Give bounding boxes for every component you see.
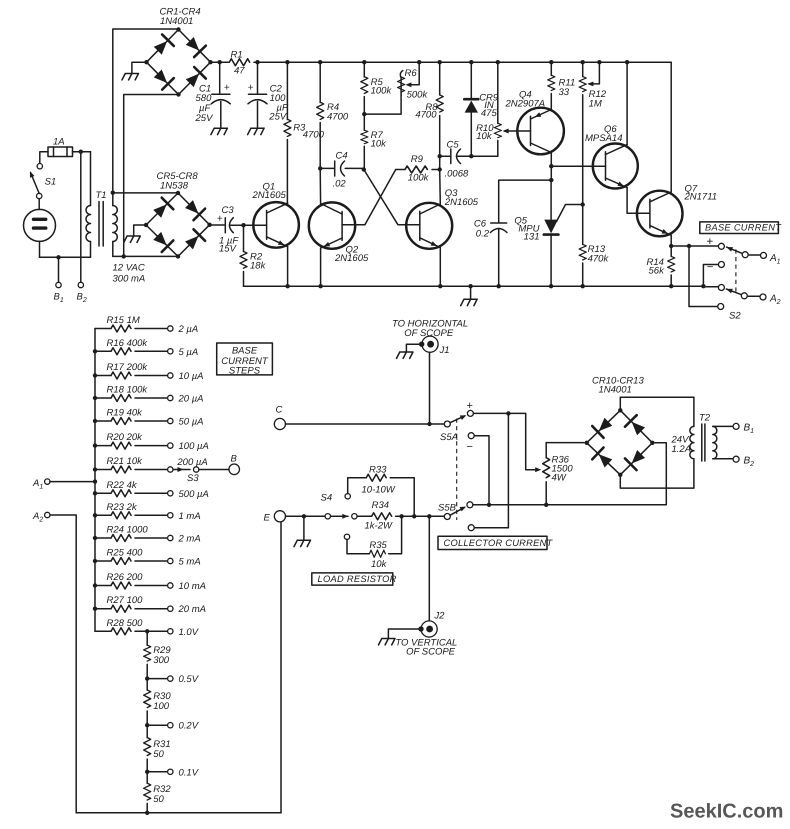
- svg-text:E: E: [264, 513, 271, 524]
- svg-text:R19 40k: R19 40k: [107, 408, 144, 419]
- node Q6 collector on rail: [625, 60, 629, 64]
- svg-text:R22 4k: R22 4k: [107, 480, 138, 491]
- resistor R22: [93, 480, 168, 497]
- wire arm to A1: [748, 254, 760, 256]
- svg-text:300: 300: [153, 655, 170, 666]
- node Q1 emitter rail: [285, 284, 289, 288]
- svg-text:S1: S1: [45, 177, 57, 188]
- wire branch down to lower throw: [689, 246, 718, 307]
- resistor R26: [93, 572, 168, 589]
- svg-text:1A: 1A: [53, 137, 65, 148]
- svg-text:R9: R9: [411, 154, 424, 165]
- ground (J2): [379, 639, 396, 645]
- node C4 right: [362, 167, 366, 171]
- svg-text:475: 475: [481, 108, 498, 119]
- wire Q1 collector: [286, 202, 288, 204]
- svg-text:4W: 4W: [552, 473, 567, 484]
- svg-text:25V: 25V: [195, 113, 215, 124]
- node CR9 top: [469, 60, 473, 64]
- svg-text:R35: R35: [369, 540, 387, 551]
- S2 gang link (dashed): [735, 249, 737, 295]
- switch S5A: [440, 400, 473, 443]
- wire Q4 collector down: [550, 153, 552, 181]
- transistor Q2 2N1605 (mirrored): [309, 202, 369, 264]
- node CR9 bottom: [469, 154, 473, 158]
- switch S3: [168, 457, 208, 484]
- node S2 branch: [687, 244, 691, 248]
- contact S5A minus: [468, 433, 474, 439]
- contact S2 plus: [718, 243, 724, 249]
- wire Q4 emitter to R11: [550, 109, 552, 112]
- COLLECTOR CURRENT box: [438, 536, 554, 549]
- resistor R9: [396, 154, 440, 184]
- capacitor C5: [445, 139, 469, 179]
- wire cross-coupling R9 to Q2 base: [352, 170, 396, 225]
- svg-text:500 µA: 500 µA: [179, 489, 209, 500]
- svg-text:R1: R1: [231, 50, 243, 61]
- svg-text:LOAD RESISTOR: LOAD RESISTOR: [318, 574, 397, 584]
- wire bridge bottom to T2 primary return: [620, 459, 694, 488]
- resistor R28: [95, 618, 168, 635]
- svg-text:2N1711: 2N1711: [684, 192, 718, 203]
- svg-text:C: C: [276, 405, 283, 416]
- node Q5 gate / R13: [581, 202, 585, 206]
- svg-text:47: 47: [234, 66, 245, 77]
- terminal A1: [761, 252, 767, 258]
- svg-text:BASE CURRENT: BASE CURRENT: [705, 223, 782, 233]
- wire switch to lamp: [38, 199, 40, 210]
- resistor R20: [93, 432, 168, 449]
- svg-text:R33: R33: [369, 465, 387, 476]
- node plus branch: [506, 411, 510, 415]
- svg-text:S4: S4: [321, 493, 333, 504]
- capacitor C1: [195, 62, 231, 128]
- svg-text:R17 200k: R17 200k: [107, 362, 149, 373]
- node R35 return: [399, 514, 403, 518]
- terminal 2uA: [168, 326, 173, 331]
- svg-text:R16 400k: R16 400k: [107, 338, 149, 349]
- svg-text:2N2907A: 2N2907A: [505, 99, 546, 110]
- wire Q6 collector to rail: [626, 62, 628, 144]
- terminal B2: [78, 282, 83, 287]
- LOAD RESISTOR box: [312, 573, 397, 585]
- svg-text:100k: 100k: [371, 86, 393, 97]
- wire fuse right to transformer primary top: [73, 151, 91, 153]
- resistor R15: [95, 315, 168, 332]
- svg-text:1M: 1M: [589, 99, 602, 110]
- resistor R24: [93, 525, 168, 542]
- BASE CURRENT box: [700, 222, 782, 234]
- node R4 top: [318, 60, 322, 64]
- wire C6 branch: [499, 180, 552, 286]
- jack J2: [418, 611, 445, 638]
- rheostat R36: [543, 443, 574, 505]
- resistor R1: [229, 59, 249, 66]
- transformer T1: [86, 152, 117, 258]
- node chain bottom: [145, 811, 149, 815]
- potentiometer R10: [476, 62, 509, 156]
- potentiometer R12: [579, 62, 607, 204]
- node R8 top: [438, 60, 442, 64]
- resistor R21: [93, 456, 168, 473]
- svg-text:.02: .02: [333, 178, 347, 189]
- diode CR12: [592, 447, 614, 469]
- ground (E row): [294, 540, 311, 546]
- node B1 tap junction: [56, 255, 60, 259]
- wire A2 down to bottom rail: [50, 515, 76, 813]
- switch S5B: [438, 502, 473, 520]
- svg-text:S5B: S5B: [438, 503, 457, 514]
- node Q5 rail: [549, 284, 553, 288]
- svg-text:1 mA: 1 mA: [179, 511, 201, 522]
- svg-text:.0068: .0068: [445, 168, 469, 179]
- svg-text:STEPS: STEPS: [229, 366, 261, 377]
- wire T2 secondary to B1: [713, 425, 733, 427]
- svg-text:10 µA: 10 µA: [179, 371, 204, 382]
- svg-text:10k: 10k: [371, 138, 388, 149]
- resistor R33 branch: [345, 465, 414, 517]
- terminal 500uA: [168, 491, 173, 496]
- wire lamp to bottom: [39, 241, 41, 257]
- diode CR1: [152, 34, 174, 56]
- wire secondary bottom to CR5-CR8: [113, 255, 178, 257]
- node C4 left: [318, 166, 322, 170]
- wire S4 to R34: [357, 515, 372, 517]
- svg-text:200 µA: 200 µA: [176, 457, 207, 468]
- node R11 top: [549, 60, 553, 64]
- capacitor C4: [333, 150, 348, 189]
- svg-text:MPSA14: MPSA14: [585, 133, 623, 144]
- svg-text:T1: T1: [96, 190, 107, 201]
- node C6 top: [549, 178, 553, 182]
- node Q7 emitter / R14: [669, 244, 673, 248]
- terminal A2: [760, 294, 766, 300]
- node 0.2V tap: [145, 723, 149, 727]
- terminal 0.5V: [147, 678, 167, 680]
- resistor R3: [284, 62, 325, 203]
- svg-text:R24 1000: R24 1000: [107, 525, 149, 536]
- node B2 tap junction: [79, 150, 83, 154]
- wire Q3 emitter to rail: [439, 248, 441, 287]
- bridge CR5-CR8: [144, 191, 212, 259]
- diode CR11: [625, 415, 647, 437]
- terminal B1 (output): [733, 423, 739, 429]
- node R14 rail: [669, 284, 673, 288]
- diode CR13: [625, 448, 647, 470]
- svg-text:J2: J2: [433, 611, 445, 622]
- PUT Q5 MPU131: [514, 180, 582, 286]
- wire S3 to B: [199, 469, 229, 471]
- svg-text:2 mA: 2 mA: [178, 534, 201, 545]
- node C2: [255, 60, 259, 64]
- wire cross-coupling C4 to Q3 base: [364, 170, 411, 225]
- svg-text:1.0V: 1.0V: [179, 627, 200, 638]
- svg-text:25V: 25V: [268, 112, 288, 123]
- node secondary bottom: [122, 254, 126, 258]
- terminal 20mA: [168, 606, 173, 611]
- node R12 top: [581, 60, 585, 64]
- wire Q4 collector to Q6 base: [551, 165, 605, 167]
- svg-text:R28 500: R28 500: [107, 618, 144, 629]
- svg-text:10-10W: 10-10W: [362, 485, 396, 496]
- wire R8 column down to R9 node: [439, 156, 441, 169]
- wire R34 to S5B pole: [396, 515, 445, 517]
- svg-text:18k: 18k: [250, 261, 267, 272]
- transistor Q3 2N1605: [406, 188, 479, 249]
- resistor R16: [93, 338, 168, 355]
- terminal 10mA: [168, 583, 173, 588]
- svg-text:0.2V: 0.2V: [179, 721, 200, 732]
- resistor R29: [144, 631, 172, 678]
- svg-text:0.1V: 0.1V: [179, 767, 200, 778]
- svg-text:100 µA: 100 µA: [179, 441, 209, 452]
- terminal E: [274, 511, 285, 522]
- capacitor C3: [210, 205, 244, 255]
- svg-text:2N1605: 2N1605: [252, 190, 287, 201]
- node E ground tap: [302, 514, 306, 518]
- node J1 feed: [427, 422, 431, 426]
- wire bottom return rail: [76, 812, 281, 814]
- node A1 bus: [93, 479, 97, 483]
- terminal 10uA: [168, 373, 173, 378]
- node R36 bottom: [544, 503, 548, 507]
- node R5/R7 junction: [362, 112, 366, 116]
- wire minus contact down: [474, 436, 489, 505]
- ground (CR1-CR4): [122, 74, 139, 80]
- svg-text:2 µA: 2 µA: [178, 324, 199, 335]
- wire Q7 emitter down: [670, 235, 672, 246]
- resistor R23: [93, 502, 168, 519]
- node 0.5V tap: [145, 676, 149, 680]
- diode CR9: [464, 62, 499, 156]
- resistor R13: [579, 205, 609, 287]
- svg-text:10k: 10k: [476, 131, 493, 142]
- contact S2 lower pole: [718, 285, 724, 291]
- fuse 1A: [48, 137, 73, 157]
- svg-text:470k: 470k: [588, 254, 610, 265]
- BASE CURRENT STEPS box: [217, 343, 273, 377]
- ground (C1): [211, 128, 228, 134]
- wire T2 secondary to B2: [713, 458, 733, 460]
- S5 gang link (dashed): [456, 419, 458, 521]
- resistor R17: [93, 362, 168, 379]
- svg-text:R18 100k: R18 100k: [107, 385, 149, 396]
- diode CR8: [183, 229, 205, 251]
- transistor Q6 MPSA14: [585, 124, 638, 189]
- diode CR4: [184, 67, 206, 89]
- bridge CR1-CR4: [144, 27, 212, 96]
- svg-text:R15 1M: R15 1M: [107, 315, 140, 326]
- svg-text:C4: C4: [336, 150, 348, 161]
- svg-text:+: +: [224, 82, 230, 93]
- resistor R25: [93, 548, 168, 565]
- svg-text:C3: C3: [222, 205, 235, 216]
- capacitor C6: [474, 219, 507, 240]
- wire C3 to Q1 base: [244, 224, 267, 226]
- node Q3 emitter rail: [438, 284, 442, 288]
- wire secondary bottom feed (CR1-CR4): [124, 95, 179, 257]
- svg-text:300 mA: 300 mA: [113, 274, 146, 285]
- svg-text:+: +: [467, 400, 473, 412]
- ground (J1): [397, 352, 414, 358]
- ground (CR5-CR8): [124, 236, 141, 242]
- node C6 rail: [497, 284, 501, 288]
- terminal 0.2V: [147, 724, 167, 726]
- wire bottom common rail: [244, 285, 704, 287]
- svg-text:−: −: [467, 441, 473, 453]
- terminal A1 (ladder): [45, 479, 50, 484]
- terminal B: [229, 464, 240, 475]
- terminal 5uA: [168, 349, 173, 354]
- node R13 rail: [581, 284, 585, 288]
- wire B2 drop: [80, 152, 82, 283]
- wire S5B contact row to bridge: [473, 443, 666, 505]
- svg-text:0.2: 0.2: [476, 229, 490, 240]
- resistor R35 branch: [344, 516, 401, 570]
- wire arm to A2: [747, 295, 760, 297]
- svg-text:5 mA: 5 mA: [179, 557, 201, 568]
- svg-text:1N538: 1N538: [160, 181, 189, 192]
- svg-text:56k: 56k: [649, 266, 666, 277]
- contact S2 minus: [718, 262, 724, 268]
- wire J2 ground stub: [388, 629, 418, 638]
- wire A1 to bus: [50, 481, 95, 483]
- svg-text:15V: 15V: [219, 244, 238, 255]
- node R8 bottom: [438, 154, 442, 158]
- wire minus to rail: [703, 265, 718, 287]
- resistor R34: [365, 500, 393, 532]
- wire bottom return to primary: [40, 256, 91, 258]
- resistor R18: [93, 385, 168, 402]
- wire secondary top to CR5-CR8: [113, 192, 178, 194]
- terminal 100uA: [168, 443, 173, 448]
- svg-text:SeekIC.com: SeekIC.com: [670, 801, 783, 823]
- resistor R5: [361, 62, 393, 114]
- node R6 wiper on rail: [417, 60, 421, 64]
- svg-text:R25 400: R25 400: [107, 548, 144, 559]
- resistor R30: [144, 679, 172, 726]
- svg-text:+: +: [248, 82, 254, 93]
- svg-text:1N4001: 1N4001: [160, 16, 193, 27]
- svg-text:S2: S2: [729, 311, 741, 322]
- svg-text:33: 33: [559, 87, 570, 98]
- svg-text:S3: S3: [187, 473, 199, 484]
- svg-text:COLLECTOR CURRENT: COLLECTOR CURRENT: [444, 538, 554, 548]
- terminal B1: [56, 282, 61, 287]
- svg-text:2N1605: 2N1605: [444, 197, 479, 208]
- svg-text:B: B: [231, 454, 238, 465]
- capacitor C2: [248, 62, 289, 128]
- svg-text:1N4001: 1N4001: [599, 385, 632, 396]
- potentiometer R6: [364, 62, 428, 114]
- node R33 return: [412, 514, 416, 518]
- svg-text:−: −: [707, 262, 714, 274]
- svg-text:100k: 100k: [408, 173, 430, 184]
- diode CR2: [184, 35, 206, 57]
- ground (common rail): [470, 286, 472, 299]
- wire Q6 emitter to Q7 base: [627, 188, 650, 214]
- svg-text:R6: R6: [405, 68, 418, 79]
- wire J1 ground stub: [406, 344, 419, 352]
- svg-text:20 µA: 20 µA: [178, 394, 204, 405]
- wire rail to S2 lower pole: [703, 286, 718, 288]
- contact S5B alt: [468, 525, 474, 531]
- svg-text:1k-2W: 1k-2W: [365, 521, 393, 532]
- svg-text:50 µA: 50 µA: [179, 417, 204, 428]
- svg-text:20 mA: 20 mA: [178, 604, 206, 615]
- diode CR6: [183, 198, 205, 220]
- svg-text:0.5V: 0.5V: [179, 674, 200, 685]
- svg-text:+: +: [707, 236, 714, 248]
- node R5 top: [362, 60, 366, 64]
- resistor R19: [93, 408, 168, 425]
- svg-text:50: 50: [153, 794, 164, 805]
- wire B1 drop: [58, 257, 60, 282]
- wire bridge left to ground: [134, 225, 146, 236]
- node Q4 collector / Q6 base: [549, 164, 553, 168]
- terminal C: [274, 418, 285, 429]
- svg-text:5 µA: 5 µA: [179, 347, 199, 358]
- wire secondary top feed (CR1-CR4): [113, 29, 179, 193]
- svg-text:R26 200: R26 200: [107, 572, 144, 583]
- svg-text:100: 100: [153, 701, 170, 712]
- wire J2 column: [428, 516, 430, 621]
- wire E row: [286, 515, 326, 517]
- contact S2 lower feed: [718, 304, 724, 310]
- svg-text:4700: 4700: [327, 112, 349, 123]
- svg-text:T2: T2: [699, 413, 711, 424]
- wire ground stub: [303, 516, 305, 540]
- ground (C2): [248, 128, 265, 134]
- node ground tap rail: [468, 284, 472, 288]
- transistor Q1 2N1605: [252, 182, 299, 248]
- wire Q7 emitter to S2 plus contact: [671, 245, 718, 247]
- wire C4 row: [320, 167, 364, 169]
- svg-text:4700: 4700: [415, 110, 437, 121]
- svg-text:R20 20k: R20 20k: [107, 432, 144, 443]
- svg-text:R27 100: R27 100: [107, 595, 144, 606]
- terminal 50uA: [168, 418, 173, 423]
- wire bridge left to ground: [132, 62, 147, 73]
- bridge CR10-CR13: [585, 408, 655, 477]
- terminal 1mA: [168, 513, 173, 518]
- terminal 0.1V: [147, 771, 167, 773]
- svg-text:S5A: S5A: [440, 432, 458, 443]
- svg-text:12 VAC: 12 VAC: [113, 263, 145, 274]
- transistor Q4 2N2907A (PNP): [505, 90, 564, 155]
- svg-text:BASE: BASE: [232, 346, 258, 357]
- diode CR7: [151, 230, 173, 252]
- wire plus branch to S5B alt contact: [474, 413, 508, 527]
- diode CR5: [151, 198, 173, 220]
- node R12 wiper on rail: [597, 60, 601, 64]
- terminal A2 (ladder): [45, 512, 50, 517]
- switch S4: [321, 493, 358, 520]
- node 0.1V tap: [145, 770, 149, 774]
- svg-text:10k: 10k: [371, 559, 388, 570]
- terminal 2mA: [168, 535, 173, 540]
- wire bridge top to T2 primary: [620, 397, 694, 426]
- resistor R4: [317, 62, 349, 168]
- resistor R31: [144, 725, 171, 772]
- terminal 5mA: [168, 558, 173, 563]
- terminal 20uA: [168, 395, 173, 400]
- wire C row: [286, 423, 445, 425]
- svg-text:R21 10k: R21 10k: [107, 456, 144, 467]
- wire Q1 emitter to rail: [287, 247, 289, 287]
- svg-text:R23 2k: R23 2k: [107, 502, 138, 513]
- node R10 top: [496, 60, 500, 64]
